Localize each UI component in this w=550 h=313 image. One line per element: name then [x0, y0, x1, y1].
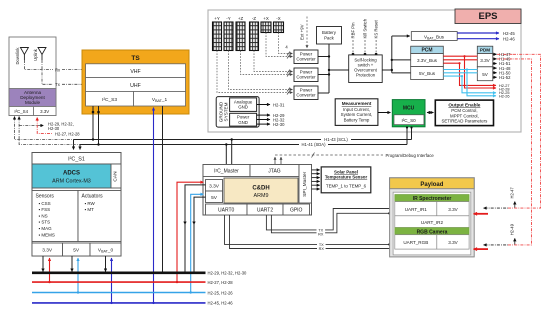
svg-text:MPPT Control,: MPPT Control, — [450, 113, 479, 118]
svg-text:H2-30: H2-30 — [273, 122, 285, 127]
ADCS CAN port — [111, 164, 121, 188]
svg-text:UART_IR1: UART_IR1 — [405, 207, 428, 212]
wire red bus to C&DH 3.3V — [176, 182, 204, 283]
KS Reset input — [374, 20, 379, 56]
wire 3.3V bus to PDM red mesh — [443, 55, 509, 91]
3.3V bus red — [32, 280, 233, 285]
svg-text:I²C_Master: I²C_Master — [214, 169, 239, 175]
svg-text:RBF Pin: RBF Pin — [351, 22, 356, 39]
svg-text:GPIO: GPIO — [290, 208, 303, 214]
wire RGB row ground dash-dot H2-49 branch — [484, 223, 515, 244]
svg-text:UHF: UHF — [130, 83, 141, 89]
5V bus light blue — [32, 290, 233, 295]
wire solar +Y to power converter 3 — [217, 51, 293, 95]
solar panel -X — [274, 16, 284, 33]
svg-text:H2-27, H2-28: H2-27, H2-28 — [208, 280, 234, 285]
svg-text:Battery Temp: Battery Temp — [344, 118, 370, 123]
svg-text:+Z: +Z — [238, 16, 244, 21]
wire I2C SCL line H1-43 — [74, 137, 412, 150]
svg-text:H1-52: H1-52 — [499, 75, 511, 80]
measurement block — [335, 99, 378, 126]
C&DH 5V pin — [206, 191, 223, 203]
solar panel temperature sensor block — [321, 167, 371, 193]
EPS title block — [455, 9, 521, 24]
EPS outer container — [208, 10, 521, 132]
ground system block — [216, 97, 259, 128]
svg-text:5V: 5V — [211, 195, 218, 201]
wire Tx dash-dot antenna to TS — [42, 60, 82, 87]
svg-text:H2-45, H2-46: H2-45, H2-46 — [208, 301, 234, 306]
PDM output pins H1-47 H1-49 H1-51 H1-48 H1-50 H1-52 — [493, 54, 497, 77]
svg-text:H1-41 (SDA): H1-41 (SDA) — [302, 142, 327, 147]
ground bus black — [32, 271, 247, 276]
svg-text:H2-31: H2-31 — [273, 102, 285, 107]
solar panel -Z — [250, 16, 259, 51]
svg-text:Kill Switch: Kill Switch — [363, 18, 368, 38]
ADCS power pin row — [32, 243, 121, 256]
svg-text:Sensors: Sensors — [36, 194, 55, 200]
svg-text:Input Current,: Input Current, — [343, 107, 370, 112]
wire solar -Z to power converter 2 — [254, 51, 293, 74]
C&DH processor ARM9 — [224, 178, 298, 203]
svg-text:VBAT_Bus: VBAT_Bus — [424, 35, 445, 41]
payload RGB camera header — [395, 228, 469, 236]
svg-text:Downlink: Downlink — [15, 47, 20, 65]
svg-text:TS: TS — [131, 55, 140, 62]
svg-text:Temperature Sensor: Temperature Sensor — [325, 175, 368, 180]
wire ADCS VBAT ground to black bus — [105, 256, 107, 272]
wire solar +Z to power converter 2 — [241, 51, 293, 77]
wire self-locking output trunk to buses — [382, 36, 411, 73]
svg-text:▪ MEMS: ▪ MEMS — [39, 232, 55, 237]
Vbat bus box — [411, 32, 457, 41]
svg-text:H2-47: H2-47 — [509, 187, 514, 199]
svg-text:▪ CSS: ▪ CSS — [39, 201, 51, 206]
svg-text:UART0: UART0 — [218, 208, 235, 214]
svg-text:Output Enable: Output Enable — [448, 103, 480, 108]
wire UART2 to payload UART_IR1 (TX RX) — [266, 209, 391, 237]
svg-text:3.3V: 3.3V — [448, 207, 458, 212]
svg-text:H1-43 (SCL): H1-43 (SCL) — [324, 137, 348, 142]
svg-text:3.3V: 3.3V — [40, 109, 49, 114]
ADCS block — [32, 153, 121, 257]
antenna downlink symbol — [20, 48, 28, 61]
ADM pin row I2C_S4 and 3.3V — [9, 107, 56, 116]
svg-text:+X: +X — [263, 16, 269, 21]
C&DH GPIO port — [283, 204, 310, 215]
wire Rx dash-dot antenna to TS — [24, 60, 82, 72]
svg-text:UART2: UART2 — [257, 208, 274, 214]
svg-text:JTAG: JTAG — [268, 169, 281, 175]
ADCS sensors list — [32, 191, 78, 242]
solar panel +Y — [213, 16, 222, 51]
svg-text:Ext +9V: Ext +9V — [300, 24, 305, 40]
svg-text:-Y: -Y — [226, 16, 230, 21]
TS block — [82, 50, 189, 114]
svg-text:MCU: MCU — [403, 106, 415, 112]
MCU block — [392, 100, 425, 127]
solar panel +X — [261, 16, 271, 33]
wire MCU to output enable (bidirectional) — [427, 112, 434, 114]
ADM purple label box — [9, 89, 56, 107]
svg-text:Converter: Converter — [296, 57, 316, 62]
wire ADCS 3.3V ground to black bus — [42, 256, 44, 272]
wire ADCS 5V ground to black bus — [71, 256, 73, 272]
svg-text:5V_Bus: 5V_Bus — [419, 71, 436, 76]
svg-text:Program/Debug Interface: Program/Debug Interface — [386, 153, 435, 158]
antenna uplink symbol — [38, 48, 46, 61]
svg-text:SPI_Master: SPI_Master — [302, 171, 308, 196]
svg-text:ARM Cortex-M3: ARM Cortex-M3 — [52, 179, 91, 185]
svg-text:PCM Control,: PCM Control, — [451, 108, 477, 113]
wire light blue bus to ADCS 5V — [77, 258, 79, 294]
svg-text:H2-27, H2-28: H2-27, H2-28 — [55, 131, 80, 136]
wire 5V bus to PDM cyan mesh — [443, 68, 509, 98]
svg-text:RX: RX — [318, 232, 324, 236]
svg-text:▪ FSS: ▪ FSS — [39, 207, 51, 212]
Ext +9V input — [300, 17, 308, 49]
svg-text:H2-29, H2-32, H2-30: H2-29, H2-32, H2-30 — [208, 271, 248, 276]
svg-text:3.3V: 3.3V — [209, 183, 220, 189]
C&DH block — [203, 165, 312, 216]
svg-text:GND: GND — [238, 105, 248, 110]
svg-text:5V: 5V — [73, 248, 80, 254]
wire C&DH 3.3V ground to black bus — [185, 185, 206, 273]
wire I2C SDA line H1-41 — [80, 142, 407, 150]
wire ADM 3.3V red dash-dot H2-27 H2-28 — [37, 118, 80, 137]
svg-text:▪ NS: ▪ NS — [39, 213, 48, 218]
wire analogue gnd to H2-31 — [257, 102, 285, 107]
svg-text:H2-45: H2-45 — [503, 31, 515, 36]
wire red dash-dot H1-47 feed to payload IR 3.3V — [474, 54, 541, 214]
svg-text:C&DH: C&DH — [252, 186, 269, 192]
C&DH UART0 port — [206, 204, 248, 215]
svg-text:PCM: PCM — [421, 48, 432, 54]
solar panel -Y — [224, 16, 233, 51]
svg-text:▪ MT: ▪ MT — [85, 207, 95, 212]
payload UART_IR2 cell — [395, 216, 469, 228]
svg-text:5V: 5V — [482, 72, 489, 77]
svg-text:+Y: +Y — [214, 16, 220, 21]
svg-text:GROUNDSYSTEM: GROUNDSYSTEM — [218, 101, 228, 122]
wire dark blue bus to ADCS VBAT_0 — [110, 258, 112, 304]
svg-text:RX: RX — [319, 247, 325, 251]
wire red bus to ADCS 3.3V — [48, 258, 50, 283]
svg-text:Converter: Converter — [296, 75, 316, 80]
svg-text:▪ RW: ▪ RW — [85, 201, 96, 206]
svg-text:TEMP_1 to TEMP_6: TEMP_1 to TEMP_6 — [326, 184, 367, 189]
power converter 3 — [294, 86, 318, 100]
payload block container — [390, 178, 475, 257]
payload UART_IR1 and 3.3V cells — [395, 202, 469, 216]
svg-text:EPS: EPS — [478, 11, 497, 22]
C&DH SPI_Master port — [299, 165, 312, 204]
svg-text:3.3V: 3.3V — [448, 240, 458, 245]
wire IR row ground dash-dot H2-47 branch — [484, 187, 515, 208]
svg-text:Measurement: Measurement — [342, 101, 372, 106]
wire SPI master to temp sensor (6 lines) — [312, 170, 320, 189]
svg-text:UART_RGB: UART_RGB — [403, 240, 428, 245]
svg-text:H2-46: H2-46 — [503, 37, 515, 42]
svg-text:-Z: -Z — [252, 16, 256, 21]
svg-text:I²C_S4: I²C_S4 — [14, 109, 28, 114]
payload IR spectrometer header — [395, 195, 469, 203]
PDM block — [477, 46, 493, 81]
svg-text:Battery: Battery — [322, 30, 337, 35]
solar panel +Z — [236, 16, 245, 51]
C&DH 3.3V pin — [206, 180, 223, 192]
svg-text:Converter: Converter — [296, 93, 316, 98]
wire solar -Y to power converter 3 — [229, 51, 293, 92]
svg-text:Payload: Payload — [420, 182, 443, 188]
svg-text:I²C_S0: I²C_S0 — [401, 118, 416, 123]
self-locking switch + overcurrent protection — [349, 55, 383, 83]
wire battery and converter outputs trunk — [318, 44, 349, 93]
payload UART_RGB and 3.3V cells — [395, 235, 469, 249]
svg-text:KS Reset: KS Reset — [374, 20, 379, 39]
Kill Switch input — [363, 18, 368, 55]
svg-text:ARM9: ARM9 — [254, 193, 269, 199]
wire TS VBAT_1 blue to VBAT bus — [152, 108, 154, 305]
svg-text:H2-26: H2-26 — [499, 94, 510, 99]
wire solar -X to power converter 1 — [279, 33, 293, 56]
svg-text:System Current,: System Current, — [341, 112, 373, 117]
VBAT bus dark blue — [32, 301, 233, 306]
svg-text:H2-49: H2-49 — [509, 223, 514, 235]
wire solar +X to power converter 1 — [266, 33, 293, 59]
svg-text:Actuators: Actuators — [82, 194, 104, 200]
wire UART0 to payload UART_RGB (TX RX) — [225, 215, 391, 251]
wire MCU I2C pins down to I2C lines — [406, 126, 413, 144]
svg-text:Module: Module — [25, 100, 41, 105]
ADCS processor ARM Cortex-M3 — [32, 164, 111, 188]
wire C&DH I2C master pins up to I2C lines — [225, 138, 233, 164]
svg-text:3.3V: 3.3V — [42, 248, 53, 254]
wire red dash-dot H1-49 feed to payload RGB 3.3V — [474, 59, 532, 249]
wire JTAG to program debug interface — [275, 153, 434, 165]
svg-text:VHF: VHF — [130, 69, 140, 75]
output enable block — [435, 100, 493, 126]
svg-text:▪ MAG: ▪ MAG — [39, 226, 53, 231]
svg-text:Protection: Protection — [356, 73, 376, 78]
PCM block — [411, 46, 444, 79]
svg-text:▪ STS: ▪ STS — [39, 220, 51, 225]
wire ADM ground branch label H2-29 H2-32 H2-30 — [19, 122, 74, 132]
svg-text:ADCS: ADCS — [63, 171, 80, 177]
battery pack — [317, 27, 342, 45]
svg-text:I²C_S1: I²C_S1 — [68, 157, 85, 163]
svg-text:I²C_S3: I²C_S3 — [102, 97, 117, 103]
wire power gnd to H2-29 H2-32 H2-30 — [257, 113, 285, 127]
svg-text:3.3V: 3.3V — [480, 58, 490, 63]
svg-text:3.3V_Bus: 3.3V_Bus — [417, 58, 438, 63]
RBF Pin input — [351, 22, 356, 55]
antenna deployment module block — [9, 37, 56, 116]
wire C&DH 5V ground to black bus — [194, 197, 206, 273]
svg-text:Uplink: Uplink — [33, 48, 38, 61]
svg-text:GND: GND — [238, 120, 248, 125]
wire TS I2C_S3 pins to I2C lines — [92, 106, 100, 146]
ADCS actuators list — [78, 191, 121, 242]
wire Vbat bus to H2-46 — [457, 37, 515, 42]
svg-text:SET/READ Parameters: SET/READ Parameters — [441, 119, 488, 124]
wire ADM I2C_S4 dash-dot to I2C lines — [15, 117, 81, 145]
svg-text:Pack: Pack — [324, 36, 335, 41]
node labels H1-47..H1-52 — [499, 52, 511, 80]
power converter 2 — [294, 68, 318, 82]
svg-text:Rx: Rx — [55, 67, 61, 72]
wire TS ground to black bus — [162, 106, 164, 273]
wire light blue bus to C&DH 5V — [190, 194, 204, 293]
wire Vbat bus to H2-45 — [457, 31, 515, 36]
svg-text:PDM: PDM — [480, 48, 490, 53]
svg-text:CAN: CAN — [113, 171, 119, 182]
svg-text:-X: -X — [276, 16, 280, 21]
C&DH UART2 port — [247, 204, 283, 215]
power converter 1 — [294, 50, 318, 64]
svg-text:H2-25, H2-26: H2-25, H2-26 — [208, 290, 234, 295]
svg-text:UART_IR2: UART_IR2 — [421, 220, 444, 225]
wire measurement to MCU — [378, 112, 391, 114]
